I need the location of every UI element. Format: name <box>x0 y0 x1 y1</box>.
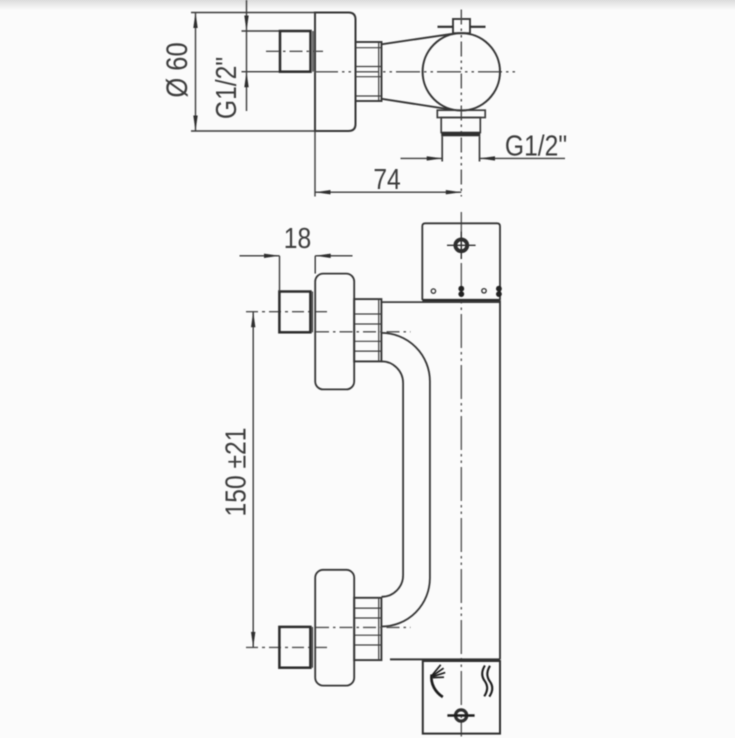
knob square on head <box>453 19 470 33</box>
svg-text:G1/2": G1/2" <box>505 130 567 162</box>
svg-text:150 ±21: 150 ±21 <box>220 428 252 517</box>
dimension 18: right tail <box>315 255 352 257</box>
hex nut (top view) <box>356 42 382 101</box>
bracket screw ring <box>455 239 467 251</box>
bracket screw crosshair horizontal <box>447 244 476 246</box>
knob tangent line left <box>438 26 454 28</box>
arrow 150 up <box>251 312 255 328</box>
bracket detent hole left <box>431 289 435 293</box>
lower flange line <box>311 627 313 668</box>
extension line G1/2 top <box>242 30 282 32</box>
outlet pipe upper <box>441 118 480 133</box>
upper escutcheon <box>315 274 354 390</box>
bracket detent dots center <box>458 286 464 292</box>
extension line 18 right <box>314 256 316 274</box>
extension line top (Ø60 / body top edge prolongation) <box>191 12 315 14</box>
arrow 74 right <box>446 190 462 194</box>
bottom block <box>423 661 500 734</box>
lower union axis <box>316 626 411 628</box>
lower square fitting <box>279 627 310 668</box>
arrow right-pointing at outlet left <box>427 156 443 160</box>
body bottom edge (front) <box>390 658 500 660</box>
head circle (top view) <box>423 33 500 110</box>
spray icon <box>431 675 442 698</box>
diverter knob ring <box>456 710 467 721</box>
arrow 150 down <box>251 632 255 648</box>
lower nut facets <box>354 598 381 660</box>
bracket bottom thick line <box>422 299 500 302</box>
dimension G1/2 outlet: right tail <box>480 157 566 159</box>
pipe inner line (large-radius bends) <box>382 333 430 627</box>
dimension 18: left tail <box>240 255 280 257</box>
lower union eccentric axis <box>246 646 331 648</box>
bracket detent dots right edge <box>496 286 502 292</box>
diverter crosshair <box>447 714 474 716</box>
arrow 18 left (pointing right) <box>264 254 280 258</box>
arrow 18 right (pointing left) <box>315 254 331 258</box>
upper nut <box>354 299 381 361</box>
outlet pipe lower right line <box>479 136 481 161</box>
flange line of square fitting <box>312 31 314 72</box>
vertical centerline (top view) <box>460 10 462 197</box>
dimension line 74 <box>315 191 461 193</box>
dimension line G1/2 inlet (vertical, top-left) <box>246 0 248 111</box>
arrow G1/2 down <box>244 16 248 32</box>
body top edge (front) <box>382 301 501 303</box>
steam icon <box>482 666 487 697</box>
knob tangent line right <box>470 26 486 28</box>
arrow G1/2 up <box>244 72 248 88</box>
upper nut facets <box>354 299 381 361</box>
outlet dark band <box>441 133 480 137</box>
upper square fitting <box>279 292 310 333</box>
cone to head (top view) <box>382 34 453 45</box>
svg-text:18: 18 <box>284 222 311 254</box>
upper union eccentric axis <box>246 311 331 313</box>
dimension line Ø60 <box>195 13 197 132</box>
bracket screw crosshair vertical <box>460 232 462 260</box>
extension line 74 left (body left edge prolongation) <box>314 13 316 197</box>
arrow Ø60 up <box>193 13 197 29</box>
dimension line 150 ±21 <box>252 312 254 648</box>
svg-text:G1/2": G1/2" <box>210 57 242 119</box>
main axis (top view) <box>314 71 515 73</box>
arrow Ø60 down <box>193 116 197 132</box>
bracket detent hole right <box>482 289 486 293</box>
upper union axis <box>316 331 411 333</box>
svg-text:Ø 60: Ø 60 <box>160 42 193 97</box>
outlet pipe lower left line <box>441 136 443 161</box>
wall bracket <box>422 223 500 300</box>
svg-text:74: 74 <box>373 163 400 195</box>
nut facet lines <box>356 42 382 101</box>
body (top view, rounded right corners) <box>315 13 356 132</box>
lower nut <box>354 598 381 660</box>
lower escutcheon <box>315 570 354 686</box>
dimension G1/2 outlet: left tail <box>401 157 443 159</box>
square inlet fitting (top view) <box>280 31 311 72</box>
extension line G1/2 bottom <box>242 71 282 73</box>
main centerline (front view) <box>460 212 462 737</box>
extension line bottom (Ø60 / body bottom edge prolongation) <box>191 130 315 132</box>
axis of square fitting (eccentric) <box>266 50 323 52</box>
upper flange line <box>311 292 313 333</box>
body right edge (front) <box>499 300 501 659</box>
extension line 18 left <box>279 256 281 292</box>
block under head <box>437 110 485 117</box>
arrow left-pointing at outlet right <box>480 156 496 160</box>
arrow 74 left <box>315 190 331 194</box>
pipe outer line (small-radius bends) <box>382 361 404 596</box>
